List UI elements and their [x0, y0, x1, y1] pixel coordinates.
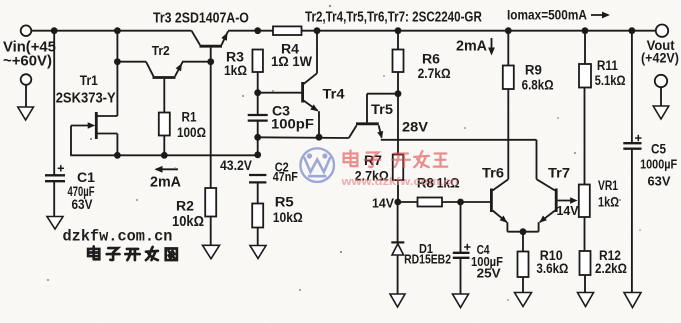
label R7: [364, 152, 382, 168]
label 25V: [477, 266, 501, 281]
wire D1 bottom lead: [397, 256, 399, 295]
svg-text:14V: 14V: [372, 196, 395, 210]
wire R8 right lead: [442, 201, 461, 203]
wire R5 bottom lead: [257, 228, 259, 247]
label 1 ohm 1W: [271, 53, 312, 69]
node R1 bottom on 43.2V rail: [161, 152, 168, 159]
wire output ground stem: [660, 87, 662, 106]
label Tr4: [323, 87, 345, 103]
wire VR1 to R12: [584, 217, 586, 251]
svg-text:43.2V: 43.2V: [220, 157, 252, 173]
svg-text:1kΩ: 1kΩ: [598, 194, 619, 210]
transistor Q4 Tr4 (current limiter): [303, 73, 319, 111]
label 100 ohm: [177, 124, 206, 140]
resistor R7 body: [393, 155, 404, 181]
watermark dzkfw.com.cn: [63, 227, 173, 245]
node R3/C3/Tr4 base: [254, 89, 261, 96]
node R3/R4 left junction: [254, 27, 261, 34]
wire C5 column upper: [631, 31, 633, 143]
wire R2 bottom lead: [210, 217, 212, 246]
label 2.7k ohm (R7): [355, 168, 389, 184]
label 470uF: [68, 183, 95, 199]
wire Tr6 collector up to R9: [507, 89, 509, 179]
label R2: [176, 197, 194, 213]
wire Tr2 emitter horizontal: [182, 61, 211, 63]
svg-text:63V: 63V: [648, 173, 671, 188]
label 14V (right): [557, 204, 580, 218]
svg-text:14V: 14V: [557, 204, 580, 218]
ground below R10: [515, 293, 532, 307]
label 63V (C5): [648, 173, 671, 188]
node R11 top on rail: [582, 27, 589, 34]
svg-text:Tr7: Tr7: [548, 166, 570, 182]
wire Tr3 base stem: [210, 48, 212, 62]
svg-text:Tr5: Tr5: [371, 101, 393, 116]
label R3: [226, 48, 244, 64]
svg-text:1000µF: 1000µF: [640, 156, 677, 171]
wire R7 bottom lead: [397, 180, 399, 202]
wire R6 bottom lead: [397, 72, 399, 94]
svg-text:Tr1: Tr1: [80, 72, 98, 88]
node Tr1 source on 43.2V rail: [114, 152, 121, 159]
label R9: [525, 62, 542, 77]
wire Tr1 source down: [116, 134, 118, 156]
wire R3 bottom to node: [257, 72, 259, 115]
svg-text:Tr2,Tr4,Tr5,Tr6,Tr7: 2SC2240-G: Tr2,Tr4,Tr5,Tr6,Tr7: 2SC2240-GR: [305, 8, 482, 25]
svg-text:2.7kΩ: 2.7kΩ: [418, 65, 451, 81]
svg-text:R1: R1: [182, 108, 197, 124]
wire R10 bottom lead: [522, 277, 524, 293]
label 14V (left): [372, 196, 395, 210]
label C4: [477, 244, 491, 257]
wire R8 left lead: [398, 201, 418, 203]
label C5: [651, 142, 666, 157]
resistor R6 body: [393, 50, 404, 73]
label 1000uF (C5): [640, 156, 677, 171]
svg-text:Tr4: Tr4: [323, 87, 345, 103]
resistor R3 body: [252, 50, 263, 73]
svg-text:1kΩ: 1kΩ: [224, 62, 247, 78]
wire Tr5 emitter long line to Tr7 collector: [381, 139, 537, 141]
label 1k ohm (VR1): [598, 194, 619, 210]
label Vin(+45: [3, 40, 56, 56]
watermark black dian-zi-kai-fa-wang1: [88, 247, 177, 261]
ground below D1: [390, 294, 405, 307]
label Tr1: [80, 72, 98, 88]
label D1: [419, 242, 433, 256]
svg-text:Iomax=500mA: Iomax=500mA: [507, 7, 587, 23]
label R8: [417, 175, 434, 190]
svg-text:dzkfw.com.cn: dzkfw.com.cn: [63, 227, 173, 245]
label 2mA (right): [456, 38, 487, 54]
svg-text:63V: 63V: [72, 196, 93, 212]
svg-text:2mA: 2mA: [150, 174, 181, 190]
wire C4 top lead: [460, 202, 462, 253]
svg-text:2.2kΩ: 2.2kΩ: [595, 261, 627, 276]
svg-text:C5: C5: [651, 142, 666, 157]
resistor R5 body: [252, 204, 263, 228]
label (+42V): [641, 50, 679, 66]
label Iomax=500mA: [507, 7, 587, 23]
input terminal - (ground side): [21, 74, 32, 85]
node rail/C1 junction: [51, 27, 58, 34]
svg-text:Tr6: Tr6: [482, 166, 504, 182]
node 14V (R7/R8/D1): [394, 199, 401, 206]
wire D1 top lead: [397, 202, 399, 242]
capacitor C3 100pF: [248, 115, 268, 121]
svg-text:~+60V): ~+60V): [3, 54, 52, 70]
wire Tr6 emitter drop: [506, 222, 508, 232]
svg-text:R6: R6: [422, 50, 440, 66]
transistor Q7 Tr7: [537, 179, 557, 223]
wire Tr6 base horizontal: [461, 201, 491, 203]
svg-text:RD15EB2: RD15EB2: [404, 252, 451, 266]
input terminal + (Vin): [21, 25, 32, 36]
node Tr4 emitter on mid wire: [316, 134, 323, 141]
svg-text:5.1kΩ: 5.1kΩ: [595, 73, 626, 88]
resistor R10 body: [518, 252, 529, 278]
label 2.7k ohm (R6): [418, 65, 451, 81]
node R4 right / Tr4 collector: [314, 27, 321, 34]
node 43.2V rail end: [254, 151, 261, 158]
label 3.6k ohm (R10): [536, 261, 568, 276]
resistor R12 body: [580, 251, 591, 275]
wire Tr5 base stem up: [366, 94, 368, 123]
wire Tr2 collector horizontal: [117, 61, 146, 63]
label R6: [422, 50, 440, 66]
wire Tr2 base stem down: [163, 79, 165, 113]
node C5 top on rail: [629, 27, 636, 34]
svg-text:2mA: 2mA: [456, 38, 487, 54]
label Tr6: [482, 166, 504, 182]
wire C2 to R5: [257, 182, 259, 203]
svg-text:100Ω: 100Ω: [177, 124, 206, 140]
wire R9 top lead: [507, 31, 509, 66]
wire Tr4 emitter down: [318, 111, 320, 137]
output terminal - (ground side): [655, 75, 667, 87]
wire 43.2V rail: [70, 154, 258, 156]
svg-text:R2: R2: [176, 197, 194, 213]
svg-text:47nF: 47nF: [273, 169, 298, 184]
capacitor C2 47nF: [249, 175, 266, 182]
ground below R2: [203, 245, 220, 258]
label 1k ohm (R8): [437, 174, 460, 190]
wire input ground stem: [25, 85, 27, 108]
label C1: [77, 169, 95, 185]
resistor R2 body: [205, 188, 216, 217]
wire R12 bottom lead: [584, 275, 586, 293]
node C3 bottom / mid wire: [254, 134, 261, 141]
wire Tr4 base horizontal: [258, 92, 302, 94]
label RD15EB2: [404, 252, 451, 266]
node R8/Tr6 base/C4: [457, 199, 464, 206]
label 2.2k ohm (R12): [595, 261, 627, 276]
transistor Q3 Tr3 (2SD1407A) pass: [192, 31, 229, 47]
label 63V (C1): [72, 196, 93, 212]
label 5.1k ohm (R11): [595, 73, 626, 88]
wire Tr1 gate down: [70, 126, 72, 156]
label Tr2: [152, 43, 170, 58]
node rail/Tr1 drain junction: [114, 27, 121, 34]
wire C3 bottom to 43.2V rail: [257, 121, 259, 156]
label C2: [275, 161, 289, 175]
potentiometer VR1 body: [579, 185, 590, 218]
node Tr3 base / Tr2 emitter / R2: [207, 58, 214, 65]
arrow 2mA down: [488, 38, 495, 56]
svg-text:(+42V): (+42V): [641, 50, 679, 66]
wire emitter join line: [507, 231, 538, 233]
wire R6 top lead: [397, 31, 399, 50]
resistor R9 body: [503, 66, 514, 90]
output terminal Vout: [656, 25, 668, 37]
ground below C4: [453, 294, 469, 308]
wire Tr5 base to R6/R7 node: [367, 93, 398, 95]
svg-text:3.6kΩ: 3.6kΩ: [536, 261, 568, 276]
svg-text:1Ω 1W: 1Ω 1W: [271, 53, 312, 69]
ground below R5: [250, 246, 266, 259]
label 28V: [402, 120, 428, 136]
svg-text:10kΩ: 10kΩ: [172, 213, 204, 229]
wire mid horizontal C3-Tr5: [258, 136, 349, 139]
arrow 2mA left current: [155, 166, 179, 173]
ground below C5: [624, 293, 641, 308]
label R1: [182, 108, 197, 124]
capacitor C5 1000uF electrolytic: [623, 135, 641, 149]
label 6.8k ohm (R9): [522, 78, 554, 93]
svg-text:www.dzkfw.com.cn: www.dzkfw.com.cn: [340, 175, 458, 188]
watermark red text dian-zi-kai-fa-wang2: [344, 151, 448, 168]
label ~+60V): [3, 54, 52, 70]
label R11: [597, 57, 618, 73]
label Tr3 2SD1407A-O: [153, 9, 249, 25]
label C3: [272, 102, 290, 118]
wire top rail left segment: [31, 30, 191, 32]
label VR1: [598, 177, 618, 193]
svg-text:R11: R11: [597, 57, 618, 73]
wire Tr7 emitter drop: [538, 222, 540, 232]
node R6/R7/Tr5 base: [395, 90, 402, 97]
label 43.2V: [220, 157, 252, 173]
wire R2 column: [210, 62, 212, 188]
capacitor C4 100uF electrolytic: [453, 244, 471, 258]
wire R11 to VR1: [584, 88, 586, 185]
wire Tr4 collector up: [316, 31, 318, 74]
svg-text:6.8kΩ: 6.8kΩ: [522, 78, 554, 93]
label R10: [540, 247, 563, 263]
transistor Q2 Tr2 (2SC2240): [146, 62, 183, 78]
label Tr7: [548, 166, 570, 182]
label Tr5: [371, 101, 393, 116]
wire Tr7 collector up: [536, 140, 538, 179]
label R5: [275, 195, 294, 211]
transistor Q5 Tr5: [349, 124, 383, 139]
transistor Q Tr1 JFET body: [71, 112, 117, 139]
label 47nF: [273, 169, 298, 184]
node Tr2 collector junction: [114, 58, 121, 65]
wire R1 bottom lead: [163, 136, 165, 156]
arrow after Iomax: [591, 12, 610, 19]
wire Tr7 base to VR1 wiper: [558, 197, 578, 203]
svg-text:VR1: VR1: [598, 177, 618, 193]
svg-text:Tr2: Tr2: [152, 43, 170, 58]
wire R10 top lead: [522, 232, 524, 252]
wire C5 bottom lead: [631, 149, 633, 293]
transistor Q6 Tr6: [491, 179, 508, 223]
node R9 top on rail: [505, 27, 512, 34]
wire Tr1 drain column: [116, 31, 118, 116]
diode D1 zener RD15EB2: [391, 242, 404, 255]
label 100uF (C4): [471, 254, 503, 269]
svg-text:2SK373-Y: 2SK373-Y: [56, 90, 116, 106]
svg-text:Tr3 2SD1407A-O: Tr3 2SD1407A-O: [153, 9, 249, 25]
label Tr2..Tr7 types: [305, 8, 482, 25]
svg-text:R9: R9: [525, 62, 542, 77]
watermark red url: [340, 175, 458, 188]
resistor R11 body: [579, 64, 591, 88]
label R4: [281, 40, 299, 56]
svg-text:100pF: 100pF: [271, 117, 314, 133]
label R12: [599, 247, 621, 263]
svg-text:28V: 28V: [402, 120, 428, 136]
wire C1 to ground: [53, 181, 55, 217]
wire top rail right segment: [228, 30, 656, 32]
label 2mA (left): [150, 174, 181, 190]
svg-text:25V: 25V: [477, 266, 501, 281]
watermark blue W logo circle: [300, 148, 334, 182]
capacitor C1 (470uF electrolytic): [45, 165, 65, 181]
wire C4 bottom lead: [460, 258, 462, 295]
resistor R4 body (in rail): [273, 26, 302, 35]
label 100pF: [271, 117, 314, 133]
wire R11 top lead: [584, 31, 586, 64]
wire C1 column upper: [53, 31, 55, 176]
label 10k ohm (R2): [172, 213, 204, 229]
label 10k ohm (R5): [273, 209, 303, 225]
scan noise specks: [47, 5, 641, 301]
node emitter join / R10: [520, 228, 527, 235]
ground at input: [18, 107, 34, 120]
ground below R12: [578, 293, 594, 307]
ground below C1: [47, 217, 63, 230]
wire R7 top lead: [397, 94, 399, 155]
node R6 top on rail: [395, 27, 402, 34]
resistor R8 body: [418, 198, 443, 207]
svg-text:10kΩ: 10kΩ: [273, 209, 303, 225]
label Vout: [647, 37, 675, 53]
label 2SK373-Y: [56, 90, 116, 106]
resistor R1 body: [159, 113, 170, 136]
label 1k ohm (R3): [224, 62, 247, 78]
ground at output: [653, 106, 669, 119]
